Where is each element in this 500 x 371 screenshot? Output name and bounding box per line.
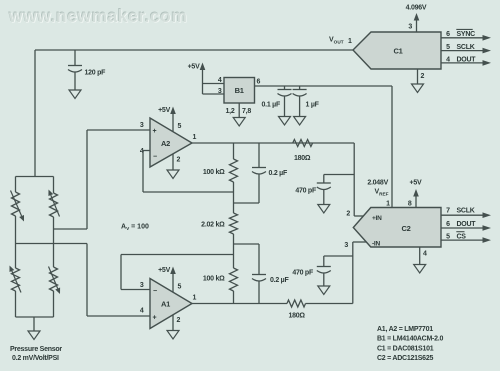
wire top net: C1 Vout to bridge drive	[35, 50, 353, 177]
A2 pin 4 label	[140, 148, 144, 155]
label 180 ohm bottom	[289, 313, 306, 320]
C1 pin 2 ground	[412, 69, 424, 93]
A2 pin 1 label	[193, 134, 197, 141]
label 2.048V Vref pin 1 of C2	[367, 180, 390, 208]
C1 pin 3 label	[408, 24, 412, 31]
ground for 120 pF	[69, 90, 81, 99]
svg-text:3: 3	[140, 122, 144, 129]
svg-text:5: 5	[178, 123, 182, 130]
B1 +5V supply and pins 4,3 wires	[200, 63, 224, 95]
resistor 100 k top	[230, 143, 238, 203]
A1 +5V supply arrow	[170, 267, 176, 293]
C2 pin 4 ground	[414, 247, 426, 273]
label +5V for A1	[158, 267, 170, 274]
svg-text:0.1 µF: 0.1 µF	[262, 102, 281, 109]
A1 pin 2 label	[177, 317, 181, 324]
svg-text:-IN: -IN	[372, 241, 380, 248]
ground for 470 pF bottom	[318, 286, 330, 295]
svg-text:5: 5	[446, 233, 450, 240]
svg-text:DOUT: DOUT	[457, 56, 477, 63]
svg-text:C1: C1	[393, 47, 402, 56]
wire to C2 -IN	[353, 242, 367, 304]
svg-text:4: 4	[218, 77, 222, 84]
svg-text:7: 7	[446, 208, 450, 215]
C2 pin 3 label	[344, 242, 348, 249]
B1 pin 4 label	[218, 77, 222, 84]
svg-text:5: 5	[446, 44, 450, 51]
svg-text:−: −	[153, 154, 157, 161]
svg-text:3: 3	[140, 282, 144, 289]
wire A2 output rail	[192, 142, 354, 144]
B1 ground	[233, 103, 245, 126]
svg-text:2: 2	[346, 211, 350, 218]
label Pressure Sensor	[10, 346, 62, 362]
capacitor 120 pF	[68, 50, 82, 90]
svg-text:+5V: +5V	[158, 267, 170, 274]
svg-text:A1, A2 = LMP7701: A1, A2 = LMP7701	[377, 326, 433, 333]
wire A2 -input feedback	[143, 151, 234, 193]
label 2.02 k	[201, 222, 225, 229]
C2 pin 8 +5V supply arrow	[413, 189, 419, 208]
label 100 k top	[203, 169, 225, 176]
A2 pin 2 label	[177, 157, 181, 164]
label Av = 100	[121, 224, 149, 232]
A2 pin 2 ground	[167, 154, 179, 179]
DAC C1	[353, 32, 441, 69]
svg-text:2: 2	[421, 73, 425, 80]
A1 pin 4 label	[140, 308, 144, 315]
svg-text:+5V: +5V	[188, 64, 200, 71]
C1 pin 6 SYNC output	[441, 29, 491, 40]
svg-text:5: 5	[178, 284, 182, 291]
ground for 470 pF top	[318, 205, 330, 214]
svg-text:+5V: +5V	[158, 107, 170, 114]
svg-text:4: 4	[140, 308, 144, 315]
label 180 ohm top	[294, 155, 311, 162]
svg-text:470 pF: 470 pF	[292, 270, 314, 277]
A2 pin 3 label	[140, 122, 144, 129]
resistor 100 k bottom	[230, 255, 238, 304]
svg-text:Pressure Sensor: Pressure Sensor	[10, 346, 62, 353]
label 120 pF	[85, 70, 107, 77]
svg-text:4.096V: 4.096V	[406, 5, 427, 12]
C2 pin 8 label	[408, 201, 412, 208]
svg-text:0.2 µF: 0.2 µF	[270, 277, 289, 284]
svg-text:B1 = LM4140ACM-2.0: B1 = LM4140ACM-2.0	[377, 336, 443, 343]
resistor 180 ohm top	[293, 140, 313, 147]
A1 pin 2 ground	[167, 315, 179, 340]
svg-text:C1 = DAC081S101: C1 = DAC081S101	[377, 345, 434, 352]
svg-text:www.newmaker.com: www.newmaker.com	[8, 6, 187, 26]
svg-text:120 pF: 120 pF	[85, 70, 107, 77]
bridge left branch with variable resistors	[10, 177, 25, 318]
svg-text:1 µF: 1 µF	[306, 102, 320, 109]
capacitor 470 pF bottom	[317, 256, 353, 286]
label 0.1 uF	[262, 102, 281, 109]
ground for 1 uF	[294, 117, 306, 126]
svg-text:7,8: 7,8	[242, 108, 251, 115]
svg-text:100 kΩ: 100 kΩ	[203, 169, 225, 176]
label 0.2 uF top	[269, 170, 288, 177]
label +5V for B1	[188, 64, 200, 71]
A1 pin 3 label	[140, 282, 144, 289]
svg-text:C2: C2	[401, 224, 410, 233]
A2 +5V supply arrow	[170, 107, 176, 132]
svg-text:SYNC: SYNC	[457, 31, 476, 38]
svg-text:+: +	[153, 128, 157, 135]
capacitor 1 uF	[293, 86, 307, 117]
bridge right branch with variable resistors	[48, 177, 60, 318]
svg-text:AV = 100: AV = 100	[121, 224, 149, 232]
bridge ground	[28, 317, 40, 340]
C2 pin 5 CS output	[441, 232, 491, 243]
resistor 2.02 k	[230, 203, 238, 255]
label 0.2 uF bottom	[270, 277, 289, 284]
C2 pin 7 SCLK output	[441, 208, 491, 218]
resistor 180 ohm bottom	[287, 300, 306, 307]
svg-text:SCLK: SCLK	[457, 44, 475, 51]
svg-text:1: 1	[193, 295, 197, 302]
B1 pins 7,8 label	[242, 108, 251, 115]
svg-text:1,2: 1,2	[226, 108, 235, 115]
svg-text:2: 2	[177, 317, 181, 324]
pressure sensor bridge rails	[16, 177, 54, 318]
wire A1 -input feedback	[121, 255, 234, 290]
B1 pin 3 label	[218, 88, 222, 95]
A1 pin 5 label	[178, 284, 182, 291]
svg-text:CS: CS	[457, 233, 467, 240]
wire B1 output 2.048V to C2 pin 1	[255, 86, 393, 208]
svg-text:1: 1	[348, 38, 352, 45]
svg-text:+: +	[153, 315, 157, 322]
A2 pin 5 label	[178, 123, 182, 130]
svg-text:−: −	[153, 288, 157, 295]
svg-text:C2 = ADC121S625: C2 = ADC121S625	[377, 355, 433, 362]
svg-text:3: 3	[218, 88, 222, 95]
svg-text:+IN: +IN	[372, 215, 382, 222]
capacitor 470 pF top	[317, 175, 354, 205]
op-amp A1	[150, 279, 192, 329]
watermark www.newmaker.com	[7, 5, 187, 26]
svg-text:3: 3	[408, 24, 412, 31]
label 100 k bottom	[203, 276, 225, 283]
wire A1 output rail	[192, 303, 353, 305]
svg-text:DOUT: DOUT	[457, 221, 477, 228]
svg-text:180Ω: 180Ω	[294, 155, 311, 162]
svg-text:1: 1	[386, 201, 390, 208]
svg-text:6: 6	[446, 221, 450, 228]
svg-text:4: 4	[423, 251, 427, 258]
svg-text:1: 1	[193, 134, 197, 141]
svg-text:100 kΩ: 100 kΩ	[203, 276, 225, 283]
label Vout pin 1 of C1	[329, 37, 352, 46]
A1 pin 1 label	[193, 295, 197, 302]
svg-text:2.02 kΩ: 2.02 kΩ	[201, 222, 225, 229]
voltage reference B1	[224, 78, 255, 104]
C1 pin 3 4.096V supply arrow	[414, 13, 420, 32]
svg-text:4: 4	[446, 56, 450, 63]
label 470 pF bottom	[292, 270, 314, 277]
svg-text:A1: A1	[161, 300, 170, 309]
svg-text:470 pF: 470 pF	[295, 188, 317, 195]
op-amp A2	[150, 118, 192, 167]
wire to C2 +IN	[354, 143, 363, 216]
svg-text:SCLK: SCLK	[457, 208, 475, 215]
label 470 pF top	[295, 188, 317, 195]
capacitor 0.2 uF top	[234, 143, 267, 203]
svg-text:0.2 µF: 0.2 µF	[269, 170, 288, 177]
C2 pin 4 label	[423, 251, 427, 258]
C2 pin 2 label	[346, 211, 350, 218]
B1 pin 6 label	[257, 79, 261, 86]
wire bridge left tap to A1 +input	[16, 244, 151, 317]
C1 pin 5 SCLK output	[441, 44, 491, 53]
svg-text:0.2 mV/Volt/PSI: 0.2 mV/Volt/PSI	[12, 355, 59, 362]
svg-text:8: 8	[408, 201, 412, 208]
svg-text:3: 3	[344, 242, 348, 249]
ADC C2	[353, 208, 441, 248]
C2 pin 6 DOUT output	[441, 221, 491, 231]
svg-text:6: 6	[446, 31, 450, 38]
ground for 0.1 uF	[279, 117, 291, 126]
svg-text:+5V: +5V	[410, 179, 422, 186]
C1 pin 4 DOUT output	[441, 56, 491, 65]
label 1 uF	[306, 102, 320, 109]
svg-text:B1: B1	[235, 86, 244, 95]
svg-text:2.048V: 2.048V	[367, 180, 388, 187]
svg-text:2: 2	[177, 157, 181, 164]
svg-text:A2: A2	[161, 139, 170, 148]
label 4.096V	[406, 5, 427, 12]
label +5V for C2	[410, 179, 422, 186]
svg-text:180Ω: 180Ω	[289, 313, 306, 320]
wire bridge right tap to A2 +input	[54, 130, 151, 229]
svg-text:6: 6	[257, 79, 261, 86]
capacitor 0.1 uF	[278, 86, 292, 117]
C1 pin 2 label	[421, 73, 425, 80]
parts list text	[377, 326, 443, 362]
capacitor 0.2 uF bottom	[234, 244, 267, 304]
label +5V for A2	[158, 107, 170, 114]
B1 pins 1,2 label	[226, 108, 235, 115]
